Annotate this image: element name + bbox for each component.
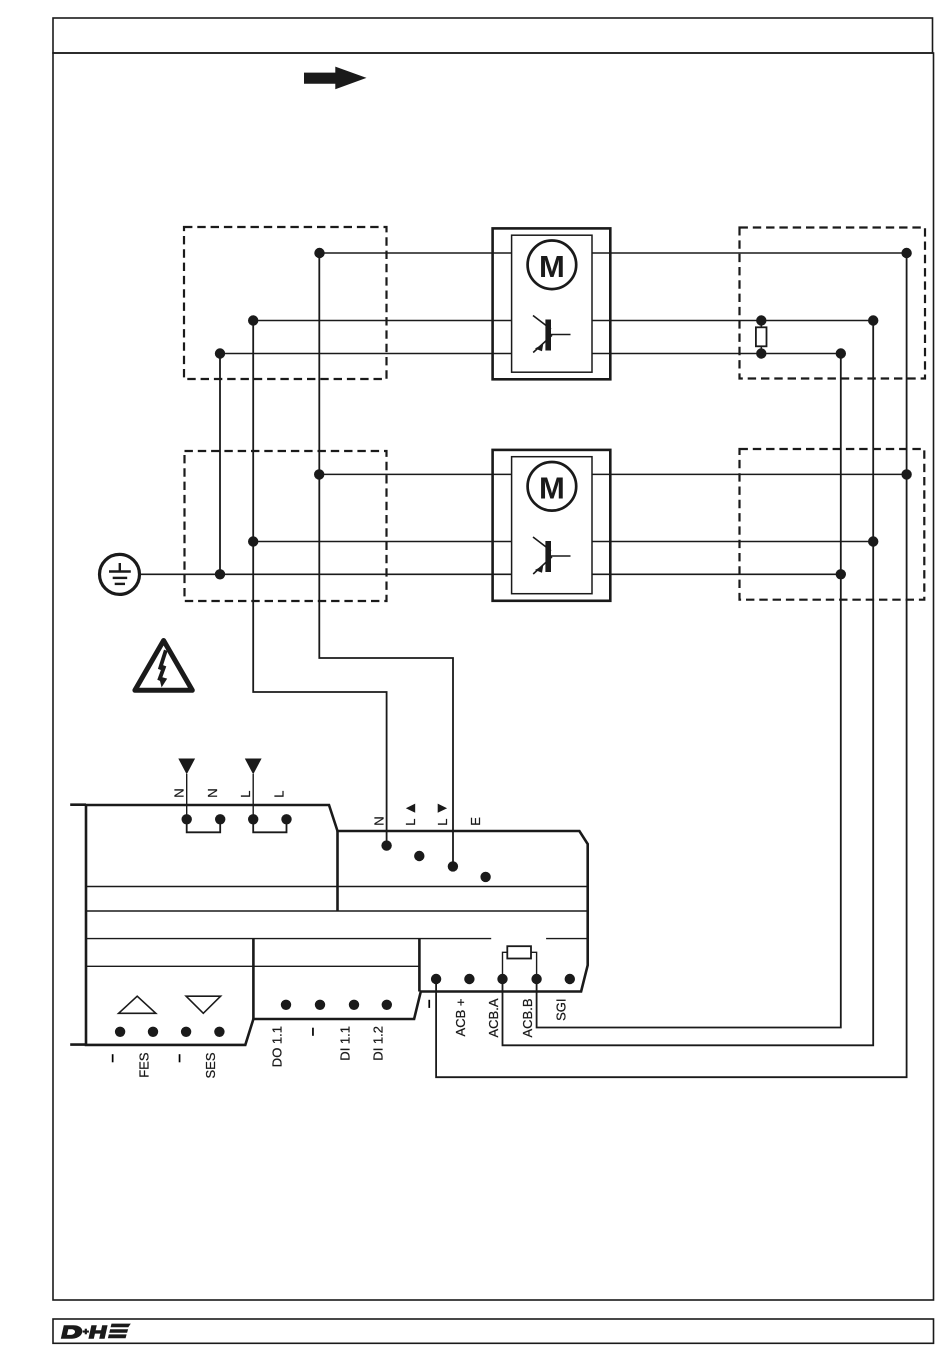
svg-text:L: L <box>435 819 450 826</box>
svg-text:DO 1.1: DO 1.1 <box>270 1026 285 1067</box>
svg-text:N: N <box>372 816 387 825</box>
svg-text:ACB.B: ACB.B <box>520 999 535 1038</box>
svg-text:N: N <box>172 788 187 797</box>
svg-text:L: L <box>238 791 253 798</box>
svg-text:E: E <box>468 817 483 826</box>
svg-text:DI 1.1: DI 1.1 <box>338 1026 353 1061</box>
svg-text:SGI: SGI <box>553 999 568 1021</box>
svg-text:L: L <box>403 819 418 826</box>
svg-text:N: N <box>205 788 220 797</box>
svg-text:M: M <box>539 249 565 284</box>
svg-text:DI 1.2: DI 1.2 <box>370 1026 385 1061</box>
svg-text:M: M <box>539 470 565 505</box>
svg-text:L: L <box>271 791 286 798</box>
svg-text:SES: SES <box>203 1052 218 1078</box>
svg-text:ACB +: ACB + <box>453 999 468 1037</box>
svg-text:ACB.A: ACB.A <box>486 998 501 1037</box>
svg-text:FES: FES <box>137 1052 152 1078</box>
